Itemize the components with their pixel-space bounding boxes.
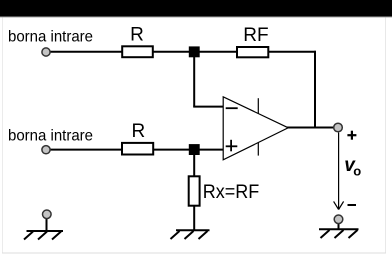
svg-text:R: R [132, 121, 146, 142]
svg-text:RF: RF [243, 25, 268, 46]
svg-text:borna intrare: borna intrare [8, 127, 93, 144]
svg-text:Rx=RF: Rx=RF [203, 182, 259, 203]
svg-text:o: o [353, 163, 361, 178]
svg-text:borna intrare: borna intrare [8, 29, 93, 46]
svg-text:R: R [130, 25, 144, 46]
